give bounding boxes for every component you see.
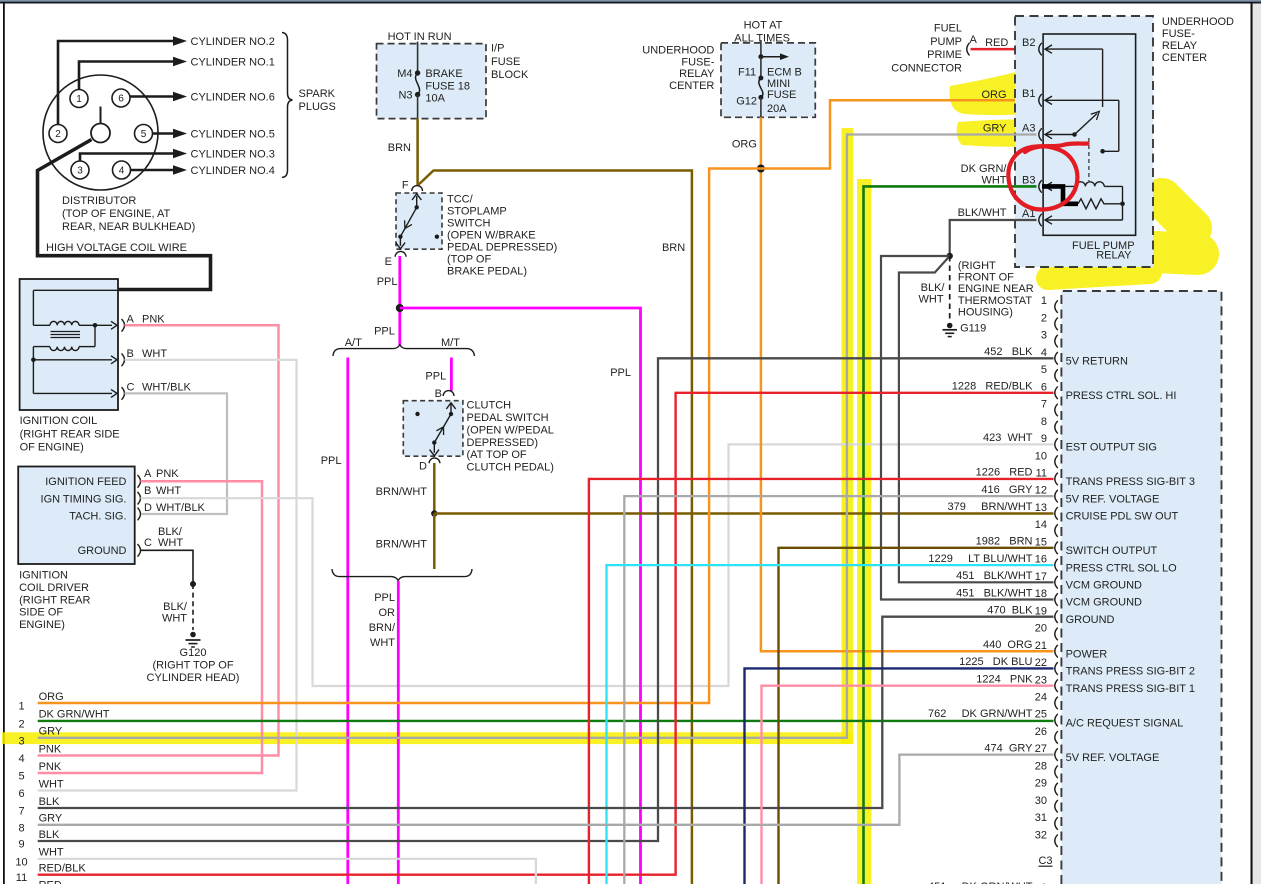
svg-text:10: 10	[1035, 450, 1047, 462]
svg-text:FUSE 18: FUSE 18	[425, 81, 470, 93]
ECM connector C3 box	[1061, 291, 1221, 884]
svg-text:WHT: WHT	[156, 485, 181, 497]
ECM pin 10	[1055, 455, 1058, 468]
ECM pin 16	[1055, 559, 1058, 572]
ECM pin 12	[1055, 490, 1058, 503]
wire BRN/WHT to ECM pin13	[434, 512, 1053, 515]
svg-text:B: B	[435, 388, 442, 400]
ECM pin 4	[1055, 352, 1058, 365]
svg-text:5V REF. VOLTAGE: 5V REF. VOLTAGE	[1066, 493, 1160, 505]
wire WHT coil B to row6	[38, 360, 297, 791]
distributor housing circle	[43, 75, 158, 190]
svg-text:4: 4	[1041, 347, 1047, 359]
svg-text:1228 RED/BLK: 1228 RED/BLK	[952, 381, 1033, 393]
high voltage coil wire	[38, 140, 211, 290]
ECM pin 29	[1055, 783, 1058, 796]
fuse 18 BRAKE FUSE	[417, 42, 419, 74]
svg-text:RELAY: RELAY	[1162, 40, 1198, 52]
A/T M/T split brace	[333, 345, 475, 356]
svg-text:(RIGHT: (RIGHT	[958, 260, 996, 272]
ECM pin 5	[1055, 369, 1058, 382]
svg-text:(RIGHT REAR: (RIGHT REAR	[19, 594, 90, 606]
svg-text:GROUND: GROUND	[78, 545, 127, 557]
highlight vertical band DK GRN/WHT B3	[857, 179, 872, 884]
svg-text:PPL: PPL	[377, 276, 398, 288]
svg-text:SPARK: SPARK	[299, 88, 336, 100]
svg-text:VCM GROUND: VCM GROUND	[1066, 597, 1142, 609]
svg-text:C: C	[127, 381, 135, 393]
highlight blob fuel pump relay	[1048, 198, 1198, 278]
svg-text:TRANS PRESS SIG-BIT 2: TRANS PRESS SIG-BIT 2	[1066, 666, 1195, 678]
wire to cyl4	[131, 169, 175, 172]
svg-text:CYLINDER NO.6: CYLINDER NO.6	[191, 92, 275, 104]
svg-text:WHT/BLK: WHT/BLK	[142, 381, 192, 393]
ECM pin 3	[1055, 335, 1058, 348]
svg-text:N3: N3	[398, 90, 412, 102]
svg-text:5V REF. VOLTAGE: 5V REF. VOLTAGE	[1066, 752, 1160, 764]
svg-text:D: D	[144, 502, 152, 514]
svg-text:CYLINDER NO.2: CYLINDER NO.2	[191, 36, 275, 48]
svg-text:HOUSING): HOUSING)	[958, 306, 1013, 318]
wire BRN ECM pin15 down	[779, 548, 1054, 884]
wire WHT driver B to ECM pin9	[141, 444, 1054, 686]
ECM pin 19	[1055, 610, 1058, 623]
svg-text:(RIGHT TOP OF: (RIGHT TOP OF	[152, 660, 233, 672]
clutch pedal switch box	[403, 401, 463, 457]
svg-text:BRN: BRN	[662, 242, 685, 254]
svg-text:SIDE OF: SIDE OF	[19, 607, 63, 619]
left page border	[3, 4, 5, 884]
svg-text:(TOP OF: (TOP OF	[447, 253, 491, 265]
distributor terminal 2	[49, 125, 67, 143]
svg-text:UNDERHOOD: UNDERHOOD	[642, 45, 714, 57]
svg-text:FUSE-: FUSE-	[1162, 28, 1195, 40]
svg-text:470 BLK: 470 BLK	[987, 605, 1033, 617]
wire GRY relay A3 to row3	[38, 135, 1037, 738]
svg-text:BLK/: BLK/	[158, 526, 183, 538]
underhood fuse box	[721, 43, 815, 117]
wire to cyl6	[130, 95, 174, 98]
relay A1 internal	[1045, 219, 1123, 221]
wire BRN/WHT clutch D down	[433, 463, 436, 514]
svg-text:379 BRN/WHT: 379 BRN/WHT	[948, 501, 1033, 513]
bold annotation B3 elbow	[1042, 186, 1078, 203]
svg-text:10A: 10A	[425, 93, 445, 105]
svg-text:WHT: WHT	[162, 613, 187, 625]
ECM pin 28	[1055, 766, 1058, 779]
svg-text:1: 1	[18, 701, 24, 713]
svg-text:ORG: ORG	[39, 691, 64, 703]
svg-text:COIL DRIVER: COIL DRIVER	[19, 582, 89, 594]
svg-text:20A: 20A	[767, 103, 787, 115]
wire to cyl3	[80, 154, 174, 162]
svg-text:DK GRN/WHT: DK GRN/WHT	[39, 709, 110, 721]
fuse F11 ECM B MINI FUSE	[760, 40, 762, 57]
svg-text:CYLINDER NO.3: CYLINDER NO.3	[191, 149, 275, 161]
wire driver C to G120	[141, 550, 193, 584]
svg-text:2: 2	[18, 718, 24, 730]
ECM pin 18	[1055, 593, 1058, 606]
driver terminal D	[138, 508, 141, 521]
ignition coil terminal B	[122, 354, 125, 367]
wire BRN fuse to TCC switch F	[416, 119, 419, 186]
svg-text:BLOCK: BLOCK	[491, 69, 529, 81]
highlight vertical band GRY A3	[842, 128, 854, 744]
svg-text:C3: C3	[1038, 855, 1052, 867]
svg-text:IGNITION COIL: IGNITION COIL	[20, 415, 98, 427]
svg-text:1224 PNK: 1224 PNK	[976, 673, 1033, 685]
svg-text:D: D	[419, 461, 427, 473]
spark plug wire arrow CYLINDER NO.4	[173, 165, 187, 174]
svg-text:B1: B1	[1022, 88, 1035, 100]
svg-text:1982 BRN: 1982 BRN	[976, 536, 1033, 548]
svg-text:WHT: WHT	[158, 537, 183, 549]
ECM pin 6	[1055, 386, 1058, 399]
ignition coil internal wiring	[33, 289, 117, 291]
svg-text:PRIME: PRIME	[927, 49, 962, 61]
svg-text:CONNECTOR: CONNECTOR	[891, 62, 962, 74]
svg-text:PLUGS: PLUGS	[299, 101, 336, 113]
distributor terminal 4	[113, 161, 131, 179]
svg-text:ALL TIMES: ALL TIMES	[734, 32, 790, 44]
svg-text:7: 7	[18, 806, 24, 818]
svg-text:A: A	[970, 34, 978, 46]
driver terminal A	[138, 475, 141, 488]
svg-text:(RIGHT REAR SIDE: (RIGHT REAR SIDE	[20, 428, 120, 440]
svg-text:474 GRY: 474 GRY	[984, 742, 1033, 754]
right page border	[1251, 4, 1253, 884]
spark plug wire arrow CYLINDER NO.3	[173, 149, 187, 158]
svg-text:1226 RED: 1226 RED	[976, 467, 1033, 479]
relay terminal B1	[1039, 94, 1042, 107]
ECM pin 11	[1055, 473, 1058, 486]
top window bar	[0, 0, 1261, 2]
svg-text:1225 DK BLU: 1225 DK BLU	[959, 656, 1032, 668]
svg-text:CENTER: CENTER	[1162, 52, 1207, 64]
svg-text:440 ORG: 440 ORG	[983, 639, 1033, 651]
svg-text:MINI: MINI	[767, 78, 790, 90]
svg-text:FUSE-: FUSE-	[681, 56, 714, 68]
svg-text:DISTRIBUTOR: DISTRIBUTOR	[62, 195, 136, 207]
svg-text:VCM GROUND: VCM GROUND	[1066, 579, 1142, 591]
svg-text:ORG: ORG	[981, 89, 1006, 101]
svg-text:8: 8	[18, 822, 24, 834]
ECM pin 32	[1055, 834, 1058, 847]
wire WHT/BLK coil C to driver D	[125, 393, 228, 514]
svg-text:26: 26	[1035, 726, 1047, 738]
svg-text:TACH. SIG.: TACH. SIG.	[69, 511, 126, 523]
wire GRY ECM pin12 down	[624, 496, 1053, 884]
ECM pin 14	[1055, 524, 1058, 537]
svg-text:21: 21	[1035, 640, 1047, 652]
spark plug wire arrow CYLINDER NO.1	[173, 57, 187, 66]
svg-text:FUSE: FUSE	[767, 89, 796, 101]
wire to cyl5	[153, 132, 175, 135]
ECM pin 23	[1055, 679, 1058, 692]
svg-text:31: 31	[1035, 812, 1047, 824]
distributor terminal 3	[71, 161, 89, 179]
svg-text:TCC/: TCC/	[447, 193, 474, 205]
TCC stoplamp switch terminal E	[395, 251, 406, 256]
svg-text:20: 20	[1035, 623, 1047, 635]
svg-text:9: 9	[1041, 433, 1047, 445]
svg-text:PEDAL SWITCH: PEDAL SWITCH	[467, 412, 549, 424]
svg-text:GROUND: GROUND	[1066, 614, 1115, 626]
relay terminal A1	[1039, 214, 1042, 227]
svg-text:416 GRY: 416 GRY	[981, 484, 1033, 496]
svg-text:ECM B: ECM B	[767, 67, 802, 79]
ECM pin 31	[1055, 817, 1058, 830]
svg-text:B: B	[144, 485, 151, 497]
svg-text:B3: B3	[1022, 174, 1035, 186]
svg-text:WHT: WHT	[142, 348, 167, 360]
wire PNK driver A to row5	[38, 481, 262, 773]
svg-text:5: 5	[141, 129, 147, 140]
svg-text:WHT: WHT	[370, 637, 395, 649]
svg-text:SWITCH: SWITCH	[447, 217, 490, 229]
svg-text:B2: B2	[1022, 37, 1035, 49]
svg-text:OF ENGINE): OF ENGINE)	[20, 442, 84, 454]
svg-text:POWER: POWER	[1066, 648, 1108, 660]
svg-text:M/T: M/T	[441, 337, 460, 349]
wire PNK ECM pin23 down	[762, 686, 1054, 884]
wire BLK ECM pin4 to row9	[38, 358, 1054, 841]
svg-text:THERMOSTAT: THERMOSTAT	[958, 295, 1032, 307]
svg-text:A3: A3	[1022, 122, 1035, 134]
svg-text:CLUTCH: CLUTCH	[467, 400, 512, 412]
svg-text:1: 1	[1041, 295, 1047, 307]
svg-text:29: 29	[1035, 778, 1047, 790]
wire PPL A/T branch	[346, 358, 349, 884]
svg-text:4: 4	[18, 753, 24, 765]
svg-text:FUSE: FUSE	[491, 56, 520, 68]
highlight blob GRY A3	[957, 119, 1063, 146]
svg-text:PPL: PPL	[374, 592, 395, 604]
svg-text:1: 1	[76, 94, 82, 105]
relay terminal B2	[1039, 43, 1042, 56]
svg-text:A/C REQUEST SIGNAL: A/C REQUEST SIGNAL	[1066, 717, 1184, 729]
ECM pin 17	[1055, 576, 1058, 589]
svg-text:BLK/WHT: BLK/WHT	[958, 207, 1007, 219]
svg-text:A: A	[144, 468, 152, 480]
svg-text:(AT TOP OF: (AT TOP OF	[467, 449, 527, 461]
ECM pin 20	[1055, 628, 1058, 641]
svg-text:1229 LT BLU/WHT: 1229 LT BLU/WHT	[928, 553, 1032, 565]
ignition coil driver box	[18, 467, 135, 565]
wire BLK/WHT to ECM pin17	[899, 256, 1054, 582]
svg-text:WHT: WHT	[39, 847, 64, 859]
svg-text:PRESS CTRL SOL LO: PRESS CTRL SOL LO	[1066, 562, 1177, 574]
svg-text:452 BLK: 452 BLK	[984, 346, 1033, 358]
svg-text:4: 4	[119, 166, 125, 177]
ECM pin 13	[1055, 507, 1058, 520]
svg-text:G120: G120	[180, 647, 207, 659]
svg-text:WHT: WHT	[39, 778, 64, 790]
svg-text:18: 18	[1035, 588, 1047, 600]
svg-text:BLK/: BLK/	[163, 601, 188, 613]
wire RED prime connector to relay B2	[971, 48, 1037, 51]
underhood fuse-relay center box	[1015, 16, 1153, 267]
svg-text:DEPRESSED): DEPRESSED)	[467, 437, 539, 449]
distributor terminal 1	[70, 90, 88, 108]
svg-text:REAR, NEAR BULKHEAD): REAR, NEAR BULKHEAD)	[62, 221, 195, 233]
svg-text:2: 2	[55, 129, 61, 140]
svg-text:A: A	[127, 313, 135, 325]
svg-text:451 BLK/WHT: 451 BLK/WHT	[956, 587, 1033, 599]
svg-text:HOT IN RUN: HOT IN RUN	[388, 31, 452, 43]
clutch switch contacts	[450, 403, 452, 414]
svg-text:TRANS PRESS SIG-BIT 1: TRANS PRESS SIG-BIT 1	[1066, 683, 1195, 695]
svg-text:24: 24	[1035, 691, 1047, 703]
relay coil	[1045, 185, 1076, 187]
svg-text:DK GRN/: DK GRN/	[961, 163, 1008, 175]
ECM pin 24	[1055, 697, 1058, 710]
svg-text:PPL: PPL	[374, 326, 395, 338]
svg-text:CYLINDER NO.5: CYLINDER NO.5	[191, 129, 275, 141]
ECM pin 25	[1055, 714, 1058, 727]
svg-text:2: 2	[1041, 312, 1047, 324]
svg-text:(OPEN W/PEDAL: (OPEN W/PEDAL	[467, 424, 554, 436]
distributor terminal 5	[135, 125, 153, 143]
svg-text:PUMP: PUMP	[930, 36, 962, 48]
svg-text:PPL: PPL	[610, 367, 631, 379]
node ORG junction	[757, 165, 765, 173]
svg-text:RELAY: RELAY	[679, 68, 715, 80]
svg-text:7: 7	[1041, 399, 1047, 411]
svg-text:PRESS CTRL SOL. HI: PRESS CTRL SOL. HI	[1066, 390, 1177, 402]
svg-text:PNK: PNK	[142, 313, 165, 325]
svg-text:OR: OR	[379, 607, 396, 619]
fuel pump relay box	[1043, 34, 1136, 235]
svg-text:6: 6	[1041, 381, 1047, 393]
svg-text:PNK: PNK	[156, 468, 179, 480]
red pen circle around B3	[1008, 146, 1077, 209]
spark plug wire arrow CYLINDER NO.2	[173, 36, 187, 45]
node BLK/WHT junction	[947, 253, 953, 259]
wire BLK/WHT dashed to G119	[949, 256, 951, 322]
driver terminal C	[138, 544, 141, 557]
distributor terminal 6	[112, 89, 130, 107]
ignition coil box	[20, 279, 118, 410]
red pen wavy line	[1025, 144, 1088, 153]
svg-text:RED: RED	[39, 880, 62, 884]
wire DK BLU ECM pin22 down	[745, 668, 1054, 884]
ECM pin 1	[1055, 300, 1058, 313]
spark plug wire arrow CYLINDER NO.6	[173, 92, 187, 101]
ECM pin 30	[1055, 800, 1058, 813]
svg-text:19: 19	[1035, 605, 1047, 617]
ground G119	[947, 323, 953, 329]
svg-text:3: 3	[1041, 330, 1047, 342]
svg-text:14: 14	[1035, 519, 1047, 531]
spark plug wire arrow CYLINDER NO.5	[173, 129, 187, 138]
svg-text:CYLINDER HEAD): CYLINDER HEAD)	[147, 672, 240, 684]
svg-text:ENGINE): ENGINE)	[19, 619, 65, 631]
svg-text:10: 10	[15, 856, 27, 868]
svg-text:25: 25	[1035, 709, 1047, 721]
distributor rotor contact	[91, 124, 110, 143]
svg-text:FUEL: FUEL	[934, 23, 962, 35]
ECM pin 15	[1055, 542, 1058, 555]
wire ORG branch to row1	[38, 169, 761, 704]
svg-text:8: 8	[1041, 416, 1047, 428]
svg-text:TRANS PRESS SIG-BIT 3: TRANS PRESS SIG-BIT 3	[1066, 476, 1195, 488]
ECM pin 8	[1055, 421, 1058, 434]
node PPL junction	[396, 304, 404, 312]
ECM pin 2	[1055, 318, 1058, 331]
svg-text:HOT AT: HOT AT	[744, 19, 783, 31]
ignition coil terminal A	[122, 319, 125, 332]
svg-text:CRUISE PDL SW OUT: CRUISE PDL SW OUT	[1066, 511, 1179, 523]
svg-text:11: 11	[16, 872, 27, 884]
svg-text:23: 23	[1035, 674, 1047, 686]
svg-text:BLK/: BLK/	[921, 282, 946, 294]
relay internal switch	[1045, 48, 1103, 50]
ignition coil terminal C	[122, 387, 125, 400]
driver terminal B	[138, 492, 141, 505]
svg-text:CLUTCH PEDAL): CLUTCH PEDAL)	[467, 462, 554, 474]
svg-text:C: C	[144, 537, 152, 549]
wire WHT row10	[38, 859, 536, 884]
svg-text:GRY: GRY	[39, 726, 63, 738]
wire BLK/WHT relay A1	[950, 220, 1037, 256]
svg-text:WHT: WHT	[919, 294, 944, 306]
svg-text:5V RETURN: 5V RETURN	[1066, 355, 1128, 367]
relay terminal A3	[1039, 128, 1042, 141]
svg-text:HIGH VOLTAGE COIL WIRE: HIGH VOLTAGE COIL WIRE	[46, 242, 187, 254]
merge underbrace	[332, 569, 472, 580]
svg-text:28: 28	[1035, 760, 1047, 772]
wire PPL-or-BRN/WHT down	[397, 581, 400, 884]
highlight row3 GRY band	[2, 732, 853, 744]
svg-text:CYLINDER NO.1: CYLINDER NO.1	[191, 57, 275, 69]
svg-text:(TOP OF ENGINE, AT: (TOP OF ENGINE, AT	[62, 208, 170, 220]
wire PNK coil A to row4	[38, 325, 279, 755]
svg-text:BRN/WHT: BRN/WHT	[376, 539, 428, 551]
svg-text:6: 6	[118, 94, 124, 105]
svg-text:WHT: WHT	[981, 174, 1006, 186]
svg-text:(OPEN W/BRAKE: (OPEN W/BRAKE	[447, 229, 536, 241]
svg-text:17: 17	[1035, 571, 1047, 583]
svg-text:BRN/: BRN/	[369, 622, 396, 634]
svg-text:A/T: A/T	[345, 337, 362, 349]
svg-text:5: 5	[1041, 364, 1047, 376]
svg-text:3: 3	[77, 166, 83, 177]
svg-text:RED: RED	[985, 37, 1008, 49]
wire GRY ECM pin27 to row8	[38, 755, 1054, 825]
svg-text:BLK: BLK	[39, 829, 60, 841]
svg-text:UNDERHOOD: UNDERHOOD	[1162, 16, 1234, 28]
wire RED ECM pin11 down	[589, 479, 1054, 884]
wire to cyl1	[79, 62, 174, 90]
svg-text:27: 27	[1035, 743, 1047, 755]
ground G120	[190, 632, 196, 638]
highlight blob ORG B1	[950, 63, 1063, 115]
svg-text:F: F	[402, 180, 409, 192]
relay terminal B3	[1039, 180, 1042, 193]
svg-text:PPL: PPL	[425, 371, 446, 383]
svg-text:PPL: PPL	[321, 455, 342, 467]
svg-text:ENGINE NEAR: ENGINE NEAR	[958, 283, 1034, 295]
I/P fuse block box	[377, 44, 487, 119]
svg-text:E: E	[385, 256, 392, 268]
relay resistor	[1078, 199, 1123, 209]
svg-text:IGNITION FEED: IGNITION FEED	[45, 476, 126, 488]
svg-text:BRN: BRN	[388, 142, 411, 154]
svg-text:SWITCH OUTPUT: SWITCH OUTPUT	[1066, 545, 1158, 557]
ECM pin 27	[1055, 748, 1058, 761]
svg-text:RELAY: RELAY	[1096, 249, 1132, 261]
